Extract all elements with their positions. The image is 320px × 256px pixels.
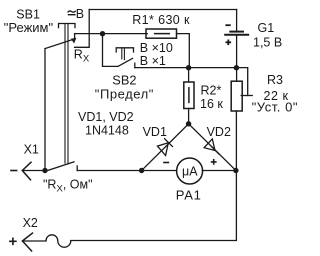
svg-text:VD1: VD1 — [143, 125, 167, 139]
svg-text:"Режим": "Режим" — [4, 20, 54, 35]
svg-text:X2: X2 — [23, 216, 38, 230]
svg-text:G1: G1 — [258, 21, 275, 35]
svg-text:R3: R3 — [267, 73, 283, 87]
svg-text:R1* 630 к: R1* 630 к — [132, 13, 190, 27]
svg-text:"RX, Ом": "RX, Ом" — [43, 178, 93, 195]
svg-text:R2*: R2* — [201, 83, 222, 97]
svg-text:VD1, VD2: VD1, VD2 — [78, 110, 134, 124]
svg-text:SB2: SB2 — [112, 73, 136, 88]
svg-text:"Уст. 0": "Уст. 0" — [252, 100, 299, 115]
svg-text:"Предел": "Предел" — [95, 86, 154, 101]
svg-text:RX: RX — [74, 47, 90, 64]
svg-text:В ×10: В ×10 — [140, 41, 173, 55]
svg-text:1N4148: 1N4148 — [85, 124, 129, 138]
svg-text:PA1: PA1 — [176, 188, 202, 203]
svg-text:μА: μА — [182, 165, 198, 179]
svg-text:VD2: VD2 — [207, 125, 231, 139]
svg-text:16 к: 16 к — [200, 97, 223, 111]
svg-text:В ×1: В ×1 — [140, 54, 166, 68]
svg-text:1,5 В: 1,5 В — [253, 35, 282, 49]
svg-text:В: В — [76, 7, 84, 21]
svg-text:X1: X1 — [24, 142, 39, 156]
